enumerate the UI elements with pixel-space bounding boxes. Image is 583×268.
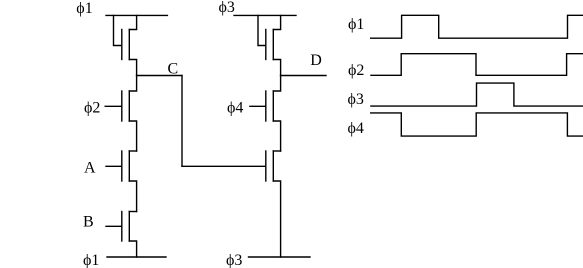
svg-text:ϕ3: ϕ3 (226, 252, 242, 268)
transistor Q7 gate bar (265, 151, 267, 181)
waveform phi2 (371, 54, 583, 76)
transistor Q5 load, gate tied to phi3 rail: gate connection wire (258, 15, 266, 45)
transistor Q5 channel bar (272, 30, 274, 60)
transistor Q2 drain lead up to node C (129, 76, 136, 92)
transistor Q3 drain lead (129, 150, 136, 152)
wire: phi3 bottom rail (249, 256, 311, 258)
svg-text:A: A (84, 160, 96, 177)
transistor Q7 source lead to bottom rail (273, 181, 280, 257)
svg-text:D: D (310, 52, 322, 69)
transistor Q3 gate bar (121, 151, 123, 181)
transistor Q6 gate bar (265, 91, 267, 121)
svg-text:ϕ1: ϕ1 (83, 252, 99, 268)
transistor Q5 drain lead to rail (273, 15, 280, 29)
transistor Q1 source lead down to node C (129, 60, 136, 76)
waveform phi4 (371, 113, 583, 136)
svg-text:C: C (168, 60, 179, 77)
transistor Q3 source lead down (129, 181, 136, 212)
transistor Q3 gate lead from A (106, 165, 122, 167)
transistor Q6 gate lead from phi4 (250, 105, 266, 107)
svg-text:ϕ4: ϕ4 (348, 120, 364, 137)
svg-text:B: B (83, 214, 94, 231)
wire: phi1 bottom rail (107, 256, 166, 258)
transistor Q1 gate bar (121, 30, 123, 60)
wire: node C vertical run down (181, 76, 183, 167)
transistor Q1 drain lead to rail (129, 15, 136, 29)
transistor Q2 source lead down (129, 121, 136, 151)
svg-text:ϕ2: ϕ2 (348, 62, 364, 79)
wire: phi1 top supply rail (106, 14, 167, 16)
node D horizontal wire (281, 75, 326, 77)
transistor Q6 drain lead up to node D (273, 76, 280, 92)
transistor Q4 drain lead (129, 211, 136, 213)
transistor Q4 channel bar (128, 212, 130, 242)
svg-text:ϕ1: ϕ1 (348, 16, 364, 33)
transistor Q4 gate bar (121, 212, 123, 242)
wire: node C to Q7 gate (182, 165, 266, 167)
transistor Q2 channel bar (128, 91, 130, 121)
transistor Q1 load, gate tied to phi1 rail: gate connection wire (114, 15, 122, 45)
waveform phi3 (371, 83, 583, 106)
transistor Q6 source lead down (273, 121, 280, 151)
transistor Q1 channel bar (128, 30, 130, 60)
node C horizontal wire (137, 75, 182, 77)
transistor Q7 channel bar (272, 151, 274, 181)
svg-text:ϕ4: ϕ4 (227, 100, 243, 117)
svg-text:ϕ3: ϕ3 (219, 0, 235, 16)
svg-text:ϕ1: ϕ1 (76, 0, 92, 17)
transistor Q4 source lead to bottom rail (129, 241, 136, 257)
svg-text:ϕ3: ϕ3 (348, 91, 364, 108)
transistor Q7 drain lead (273, 150, 280, 152)
transistor Q3 channel bar (128, 151, 130, 181)
transistor Q4 gate lead from B (106, 225, 122, 227)
transistor Q5 gate bar (265, 30, 267, 60)
transistor Q2 gate bar (121, 91, 123, 121)
wire: phi3 top supply rail (234, 14, 296, 16)
transistor Q6 channel bar (272, 91, 274, 121)
transistor Q5 source lead down to node D (273, 60, 280, 76)
svg-text:ϕ2: ϕ2 (84, 100, 100, 117)
transistor Q2 gate lead from phi2 (105, 105, 122, 107)
waveform phi1 (371, 15, 583, 38)
